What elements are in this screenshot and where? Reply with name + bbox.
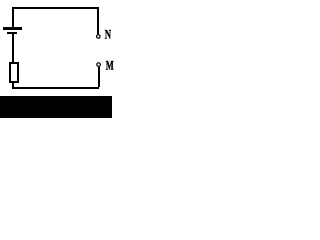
battery cell: long positive plate xyxy=(3,27,22,30)
svg-text:N: N xyxy=(105,26,112,41)
black censor bar at bottom xyxy=(0,96,112,118)
svg-text:M: M xyxy=(106,57,114,72)
wire: top horizontal from battery + terminal to N branch xyxy=(12,7,99,9)
wire: bottom horizontal from resistor to M branch xyxy=(12,87,99,89)
wire: left vertical from top wire down to battery positive plate xyxy=(12,7,14,27)
wire: right vertical from top wire down to terminal N xyxy=(97,7,99,34)
terminal M: open circle xyxy=(97,63,101,67)
resistor R (box symbol) xyxy=(10,63,18,82)
wire: short vertical from resistor bottom to bottom wire xyxy=(12,83,14,87)
battery cell: short negative plate xyxy=(7,32,17,34)
wire: left vertical from battery negative plate down to resistor xyxy=(12,34,14,62)
wire: right vertical from terminal M down to bottom wire xyxy=(98,67,100,87)
terminal N: open circle xyxy=(97,35,101,39)
